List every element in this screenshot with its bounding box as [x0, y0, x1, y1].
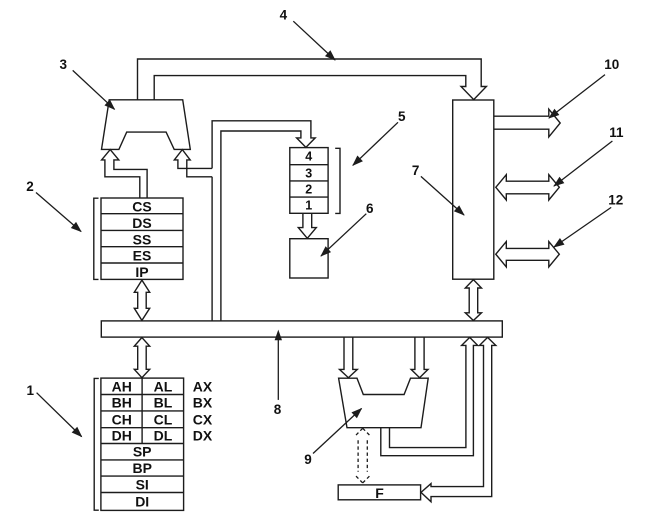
svg-text:CS: CS — [132, 199, 151, 215]
svg-text:12: 12 — [608, 193, 623, 208]
label 5 with pointer — [353, 109, 406, 165]
svg-text:8: 8 — [274, 402, 282, 417]
svg-text:4: 4 — [280, 8, 288, 23]
svg-text:DX: DX — [193, 428, 213, 444]
register F: flags register box — [338, 485, 420, 501]
label 11 with pointer — [554, 125, 624, 186]
box U7: bus interface unit — [453, 100, 494, 279]
label 6 with pointer — [321, 201, 374, 256]
svg-text:DS: DS — [132, 215, 151, 231]
bracket for Q5 — [335, 148, 340, 213]
svg-text:2: 2 — [26, 179, 34, 194]
arrow A12: control bus double block arrow — [496, 242, 560, 267]
svg-text:1: 1 — [27, 383, 35, 398]
svg-text:ES: ES — [133, 248, 152, 264]
svg-text:3: 3 — [305, 166, 312, 180]
svg-text:BL: BL — [154, 395, 173, 411]
svg-text:BH: BH — [112, 395, 132, 411]
arrow A-Q6: queue to execution box down arrow — [298, 214, 316, 239]
svg-text:5: 5 — [398, 109, 406, 124]
svg-text:4: 4 — [305, 150, 312, 164]
wire W-F-bus: flags to bus, up arrowhead at bus and left arrowhead at F — [421, 337, 496, 501]
svg-text:DH: DH — [112, 428, 132, 444]
bracket for R2 — [94, 198, 99, 279]
arrow A11: data bus double block arrow — [496, 175, 560, 200]
label 4 with pointer — [280, 8, 335, 60]
label 12 with pointer — [554, 193, 623, 247]
wire W2b: C-bus branch to adder right input, up arrowhead — [174, 150, 212, 177]
box U6: execution control box — [290, 239, 328, 278]
svg-text:SS: SS — [133, 231, 152, 247]
wire W2a: CS register top to adder left input, up arrowhead — [102, 150, 148, 198]
wire W4: adder output bus to BIU box top with down arrowhead — [138, 59, 487, 100]
arrow A-ALU-R: bus to ALU right input — [411, 337, 428, 378]
svg-text:9: 9 — [304, 452, 312, 467]
svg-text:10: 10 — [604, 57, 619, 72]
label 2 with pointer — [26, 179, 81, 232]
register block R2: segment registers CS DS SS ES IP — [101, 198, 183, 280]
svg-text:IP: IP — [135, 264, 148, 280]
bracket for R1 — [94, 378, 99, 510]
dashed arrow A-F: ALU to flags double dashed arrow — [355, 428, 372, 483]
svg-text:AX: AX — [193, 378, 213, 394]
arrow A10: address bus out block arrow — [494, 109, 560, 137]
adder U3 (segment adder trapezoid) — [102, 100, 191, 150]
svg-text:AL: AL — [154, 378, 173, 394]
svg-text:BP: BP — [132, 460, 151, 476]
arrow A-RF: double arrow bus to register file — [134, 338, 149, 378]
register file R1: AH..DI — [101, 378, 184, 510]
label 1 with pointer — [27, 383, 82, 436]
arrow A-IP: double arrow IP to bus — [134, 280, 149, 320]
svg-text:7: 7 — [412, 163, 420, 178]
label 3 with pointer — [60, 57, 115, 110]
queue Q5: instruction queue cells 4 3 2 1 — [290, 148, 328, 214]
bus B8: main internal bus bar — [101, 321, 502, 337]
svg-text:BX: BX — [193, 395, 213, 411]
label 10 with pointer — [549, 57, 619, 118]
label 7 with pointer — [412, 163, 464, 215]
arrow A-7bus: double arrow BIU to bus — [465, 280, 481, 321]
svg-text:1: 1 — [305, 199, 312, 213]
label 9 with pointer — [304, 409, 361, 467]
wire W-C: vertical C-bus from main bus up, turning right into queue with down arrowhead — [212, 121, 315, 321]
svg-text:AH: AH — [112, 378, 132, 394]
svg-text:DL: DL — [154, 428, 173, 444]
wire W-ALU-out: ALU output to bus with up arrowhead — [381, 337, 478, 455]
svg-text:2: 2 — [305, 183, 312, 197]
arrow A-ALU-L: bus to ALU left input — [340, 337, 358, 378]
label 8 with pointer — [274, 330, 282, 418]
svg-text:CX: CX — [193, 411, 213, 427]
svg-text:11: 11 — [609, 125, 624, 140]
svg-text:3: 3 — [60, 57, 68, 72]
svg-text:DI: DI — [135, 493, 149, 509]
svg-text:SI: SI — [136, 476, 149, 492]
svg-text:CH: CH — [112, 411, 132, 427]
svg-text:6: 6 — [366, 201, 374, 216]
svg-text:F: F — [375, 485, 384, 501]
ALU U9 trapezoid — [339, 378, 429, 428]
svg-text:CL: CL — [154, 411, 173, 427]
svg-text:SP: SP — [133, 444, 152, 460]
